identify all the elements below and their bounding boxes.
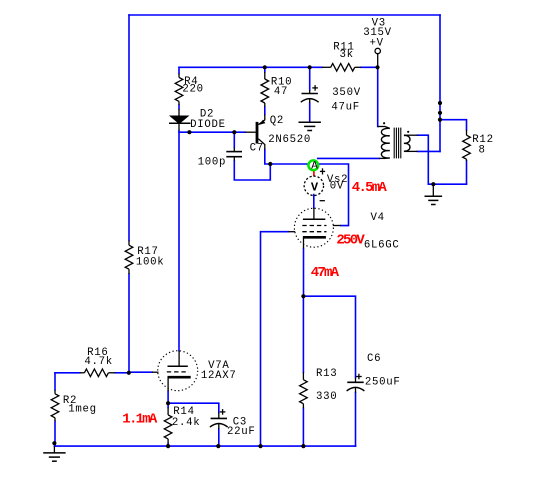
junction dot rail V4 grid [258, 444, 262, 448]
transformer primary phase dot [383, 122, 385, 124]
wire node to V7A grid [129, 371, 152, 373]
wire R4 to D2 [178, 105, 180, 109]
wire C7 top stub [233, 132, 235, 147]
wire ammeter to V4 screen grid [320, 164, 349, 226]
tube V7A envelope [158, 351, 198, 391]
svg-text:C6: C6 [367, 353, 381, 365]
transistor Q2 [245, 115, 265, 150]
tube V4 screen grid g2 [302, 225, 326, 227]
wire R16 right to node [115, 372, 129, 374]
ground under 47uF [299, 122, 321, 130]
tube V7A plate [168, 351, 188, 366]
wire +V down to transformer primary [377, 67, 379, 126]
junction dot 47uF top [308, 65, 312, 69]
wire left vertical lower (R17 to R16 node) [128, 274, 130, 373]
svg-text:V4: V4 [371, 212, 385, 224]
transformer core [394, 128, 401, 159]
wire V4 grid to bottom rail [261, 232, 289, 446]
transformer secondary phase dot [407, 131, 409, 133]
voltmeter Vs2 [304, 176, 323, 195]
transformer primary winding [381, 127, 389, 159]
wire R10 top stub [264, 67, 266, 72]
svg-text:250V: 250V [336, 233, 365, 249]
wire supply rail y67 right part [361, 66, 378, 68]
svg-text:A: A [311, 161, 318, 173]
wire Q2 base horizontal [179, 131, 245, 133]
resistor R13 [300, 372, 308, 408]
tube V4 cathode [303, 237, 326, 248]
tube V4 control grid g1 [302, 231, 326, 233]
svg-text:47mA: 47mA [311, 265, 340, 281]
wire R12 bottom [466, 161, 468, 184]
wire C6 bottom [355, 393, 357, 446]
wire C47uF to ground [309, 103, 311, 121]
wire Q2 collector to ammeter [265, 150, 307, 165]
wire secondary bottom [418, 150, 441, 152]
wire cathode node to C3 [168, 403, 219, 412]
wire R13 bottom [302, 408, 304, 446]
capacitor C3 22uF [210, 409, 228, 429]
svg-text:Q2: Q2 [270, 115, 284, 127]
junction dot +V node [375, 65, 379, 69]
svg-text:6L6GC: 6L6GC [364, 240, 400, 252]
red probe lead [313, 171, 315, 176]
svg-text:220: 220 [182, 84, 203, 96]
transformer secondary top lead [404, 134, 418, 136]
wire to R12 top [440, 120, 467, 130]
tube V7A grid lead [152, 371, 159, 373]
svg-text:R13: R13 [316, 368, 337, 380]
wire R16 left [55, 372, 80, 374]
wire voltmeter to V4 plate [313, 195, 315, 208]
diode D2 [169, 109, 191, 131]
wire C7 bottom L to collector node [234, 161, 270, 180]
wire R10 to Q2 emitter [264, 107, 266, 115]
wire C47uF top stub [309, 67, 311, 90]
junction dot collector node [268, 162, 272, 166]
svg-text:12AX7: 12AX7 [201, 370, 237, 382]
svg-text:350V: 350V [332, 87, 361, 99]
junction dot secondary tap 1 [438, 101, 442, 105]
junction dot V7A cathode node [166, 401, 170, 405]
svg-text:100p: 100p [198, 157, 227, 169]
svg-text:330: 330 [316, 391, 337, 403]
wire C3 bottom [218, 429, 220, 446]
svg-text:250uF: 250uF [365, 377, 401, 389]
junction dot D2 node [187, 130, 191, 134]
ground bottom left [43, 446, 65, 461]
junction dot secondary tap 3 [438, 118, 442, 122]
transformer primary top lead [378, 126, 386, 128]
svg-text:2N6520: 2N6520 [268, 134, 311, 146]
wire R13 top [302, 296, 304, 372]
wire top rail [129, 14, 440, 16]
tube V4 envelope [294, 208, 333, 247]
tube V7A grid [167, 371, 189, 373]
wire right vertical [439, 15, 441, 151]
wire supply rail y67 left part [179, 66, 322, 68]
wire R2 top [54, 373, 56, 390]
svg-text:8: 8 [479, 145, 486, 157]
wire bottom rail [54, 445, 355, 447]
junction dot V4 cathode node [301, 294, 305, 298]
svg-text:0V: 0V [330, 181, 344, 193]
svg-text:+V: +V [370, 38, 384, 50]
svg-text:1meg: 1meg [68, 404, 97, 416]
power symbol +V (V3 315V) [375, 48, 380, 66]
resistor R11 [322, 64, 361, 72]
tube V7A cathode [168, 377, 191, 391]
wire D2 cathode down to V7A plate [178, 131, 180, 351]
wire R4 top stub [178, 67, 180, 73]
resistor R16 [80, 369, 116, 377]
wire V4 cathode down [303, 249, 305, 297]
wire primary bottom to ammeter [318, 157, 379, 159]
junction dot R2 ground node [52, 441, 56, 445]
ammeter A (green probe) [308, 160, 318, 172]
junction dot R16 node [127, 371, 131, 375]
svg-text:2.4k: 2.4k [172, 417, 201, 429]
junction dot secondary tap 2 [438, 111, 442, 115]
svg-text:4.5mA: 4.5mA [352, 180, 388, 196]
ground under transformer secondary [425, 184, 443, 204]
resistor R10 [261, 72, 269, 107]
wire V7A cathode down [167, 391, 169, 407]
svg-text:DIODE: DIODE [190, 119, 226, 131]
junction dot R10 top [263, 65, 267, 69]
voltmeter minus sign [320, 200, 325, 202]
resistor R14 [164, 408, 172, 444]
svg-text:47uF: 47uF [331, 102, 360, 114]
svg-text:C7: C7 [250, 143, 264, 155]
transformer secondary bottom lead [404, 150, 418, 152]
resistor R12 [463, 130, 471, 161]
wire R2 bottom [54, 421, 56, 446]
capacitor C6 250uF [347, 374, 365, 393]
resistor R17 [125, 241, 133, 275]
svg-text:100k: 100k [136, 257, 165, 269]
svg-text:47: 47 [274, 86, 288, 98]
svg-text:3k: 3k [340, 49, 354, 61]
tube V4 g2 lead [333, 225, 341, 227]
capacitor 47uF 350V [301, 85, 319, 103]
wire cathode node to C6 [303, 296, 355, 377]
svg-text:1.1mA: 1.1mA [122, 412, 158, 428]
svg-text:V: V [311, 180, 319, 194]
tube V4 plate [303, 208, 325, 219]
resistor R2 [51, 390, 59, 422]
ammeter plus sign [320, 168, 325, 174]
junction dot rail C3 [216, 444, 220, 448]
wire secondary top to ground node [418, 135, 467, 184]
resistor R4 [175, 73, 183, 105]
junction dot rail R13 [301, 444, 305, 448]
junction dot C7 top [232, 130, 236, 134]
capacitor C7 100p [226, 148, 242, 161]
svg-text:22uF: 22uF [227, 426, 256, 438]
transformer primary bottom lead [379, 157, 385, 159]
svg-text:4.7k: 4.7k [84, 356, 113, 368]
transformer secondary winding [404, 135, 410, 151]
wire left vertical upper (to R17) [128, 15, 130, 241]
junction dot secondary ground node [431, 182, 435, 186]
tube V4 g1 lead [289, 231, 296, 233]
junction dot rail R14 [166, 444, 170, 448]
wire R14 bottom [167, 444, 169, 447]
